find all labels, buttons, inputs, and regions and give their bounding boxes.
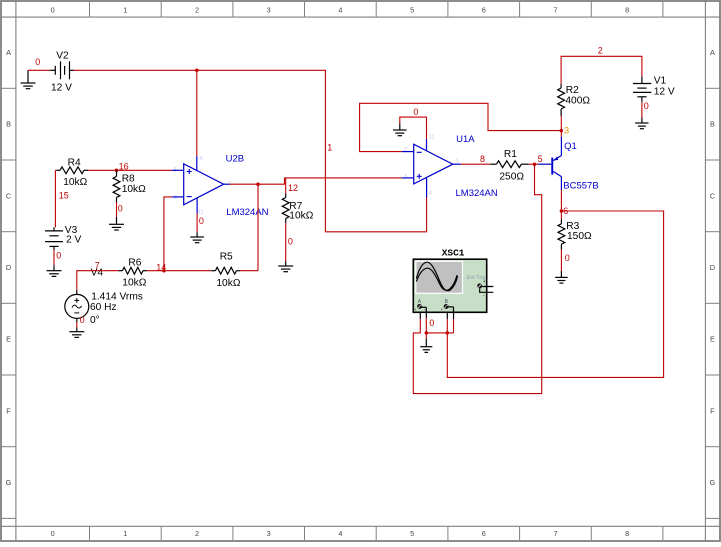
wire net 5: R1 to Q1 base <box>529 163 539 165</box>
svg-text:R5: R5 <box>220 252 233 263</box>
svg-text:R2: R2 <box>566 85 579 96</box>
svg-text:3: 3 <box>564 126 569 137</box>
svg-text:12 V: 12 V <box>654 87 675 98</box>
svg-text:G: G <box>710 478 716 487</box>
svg-text:E: E <box>6 335 11 344</box>
resistor R3 150ohm <box>558 219 592 249</box>
svg-text:F: F <box>710 406 715 415</box>
svg-text:5: 5 <box>410 529 414 538</box>
svg-text:4: 4 <box>429 191 432 197</box>
svg-text:10kΩ: 10kΩ <box>122 278 146 289</box>
wire net 0 below R8 <box>117 202 123 217</box>
resistor R7 10kohm with hang wire <box>282 178 313 223</box>
wire net 8: U1A output to R1 <box>453 163 491 165</box>
junction net 1 on rail <box>195 69 199 73</box>
svg-text:+: + <box>414 308 417 313</box>
svg-text:F: F <box>6 406 11 415</box>
svg-text:7: 7 <box>553 6 557 15</box>
battery V2 12V <box>51 50 74 93</box>
svg-text:B: B <box>6 120 11 129</box>
svg-text:0°: 0° <box>90 315 100 326</box>
svg-text:6: 6 <box>174 195 177 201</box>
svg-text:12 V: 12 V <box>51 83 72 94</box>
svg-text:V1: V1 <box>654 76 667 87</box>
svg-text:D: D <box>710 263 715 272</box>
U1A part label LM324AN <box>456 188 498 199</box>
wire net 14: R6 to R5 and U2B - input <box>147 197 211 271</box>
resistor R4 10kohm <box>55 158 88 188</box>
op-amp U2B <box>174 164 232 205</box>
AC source V4 1.414Vrms 60Hz <box>65 267 143 326</box>
op-amp U2B power pin 4 stub <box>197 156 202 171</box>
wire node 3 (R2 bottom to Q1 emitter) <box>560 116 562 137</box>
resistor R1 250ohm <box>490 149 528 182</box>
svg-text:10kΩ: 10kΩ <box>289 211 313 222</box>
op-amp U1A <box>404 144 459 184</box>
svg-text:16: 16 <box>119 162 129 172</box>
oscilloscope XSC1 <box>413 247 493 313</box>
op-amp U1A power pin 4 stub (bottom) <box>427 177 432 197</box>
ground (R7) <box>278 261 293 271</box>
svg-text:Q1: Q1 <box>564 141 577 152</box>
svg-text:4: 4 <box>199 156 202 162</box>
svg-text:8: 8 <box>480 154 485 164</box>
resistor R5 10kohm <box>211 252 240 290</box>
junction node 3 <box>560 129 564 133</box>
transistor Q1 BC557B <box>538 137 561 190</box>
svg-text:0: 0 <box>51 529 55 538</box>
svg-text:0: 0 <box>199 216 204 226</box>
wire U1A feedback loop: node 3 to U1A inverting input <box>360 103 562 151</box>
svg-text:A: A <box>710 48 715 57</box>
svg-text:0: 0 <box>80 315 85 325</box>
svg-text:LM324AN: LM324AN <box>226 207 268 218</box>
svg-text:11: 11 <box>429 135 435 141</box>
svg-text:14: 14 <box>156 263 166 273</box>
svg-text:G: G <box>6 478 12 487</box>
wire net 1: 12V rail from V2 right, down and to U1A pin4 <box>74 70 427 232</box>
resistor R6 10kohm <box>118 257 147 288</box>
net 1 label <box>327 142 332 152</box>
svg-text:R1: R1 <box>504 149 517 160</box>
ground (V1) <box>635 118 648 129</box>
svg-text:0: 0 <box>565 253 570 263</box>
svg-text:10kΩ: 10kΩ <box>216 278 240 289</box>
wire net 16: R4 to U2B + input <box>88 169 184 171</box>
svg-text:B: B <box>710 120 715 129</box>
svg-text:0: 0 <box>51 6 55 15</box>
wire net 5 to scope input A <box>413 164 541 393</box>
svg-text:3: 3 <box>267 6 271 15</box>
svg-text:2: 2 <box>195 529 199 538</box>
net 0 label (scope ground) <box>429 318 434 328</box>
svg-text:1: 1 <box>123 6 127 15</box>
resistor R8 10kohm <box>113 170 146 202</box>
junction net 14 <box>162 269 166 273</box>
net 2 label <box>598 46 603 56</box>
wire scope B- to ground net <box>426 307 453 333</box>
ground (U1A supply, net 0) with wire <box>393 117 427 139</box>
svg-text:400Ω: 400Ω <box>565 96 590 107</box>
U1A inverting input stub (pin 2) <box>402 147 414 153</box>
junction net 6 at B+ <box>446 331 450 335</box>
svg-text:4: 4 <box>338 6 342 15</box>
svg-text:5: 5 <box>410 6 414 15</box>
svg-text:2 V: 2 V <box>66 235 81 246</box>
svg-text:0: 0 <box>35 57 40 67</box>
svg-text:250Ω: 250Ω <box>499 171 524 182</box>
svg-text:E: E <box>710 335 715 344</box>
svg-text:1.414 Vrms: 1.414 Vrms <box>91 291 143 302</box>
svg-text:0: 0 <box>429 318 434 328</box>
wire net 0 to V2 <box>28 69 51 71</box>
ground (scope A-, net 0) with wire <box>420 307 433 352</box>
svg-text:R4: R4 <box>68 158 81 169</box>
ground (V2 negative, net 0) <box>21 70 36 88</box>
svg-text:+: + <box>441 308 444 313</box>
wire net 12: R5 right up-corner <box>240 270 258 272</box>
svg-text:3: 3 <box>267 529 271 538</box>
battery V1 12V <box>633 76 675 102</box>
svg-text:2: 2 <box>404 147 407 153</box>
battery V3 2V <box>45 225 81 250</box>
U2B reference label <box>226 153 244 164</box>
svg-text:BC557B: BC557B <box>563 181 598 192</box>
junction net 16 (R8 tap) <box>115 169 119 173</box>
svg-text:150Ω: 150Ω <box>567 231 592 242</box>
svg-text:10kΩ: 10kΩ <box>63 177 87 188</box>
net 15 label <box>59 191 69 201</box>
junction net 5 <box>533 162 537 166</box>
svg-text:4: 4 <box>338 529 342 538</box>
svg-text:LM324AN: LM324AN <box>456 188 498 199</box>
wire net 12: U2B output jog to U1A + input <box>224 178 414 184</box>
ground (R3) <box>555 271 568 283</box>
op-amp U1A pin 11 stub (top) <box>427 135 435 151</box>
svg-text:U1A: U1A <box>456 134 475 145</box>
svg-text:2: 2 <box>598 46 603 56</box>
wire net 0 below R3 <box>561 250 569 271</box>
ground (V3) <box>47 265 62 276</box>
wire net 0 below V4 <box>77 315 85 328</box>
resistor R2 400ohm <box>558 84 591 116</box>
net 16 label <box>119 162 129 172</box>
wire net 0 below V1 <box>642 101 649 118</box>
net 8 label <box>480 154 485 164</box>
wire net 0 below V3 <box>54 250 61 265</box>
net 0 label (R7 ground) <box>288 236 293 246</box>
svg-text:C: C <box>710 191 715 200</box>
svg-text:8: 8 <box>625 529 629 538</box>
wire net 1 branch to U2B power pin 4 <box>196 70 198 156</box>
net 7 label <box>95 261 100 271</box>
svg-text:0: 0 <box>413 107 418 117</box>
net 0 label (V2 ground) <box>35 57 40 67</box>
Q1 reference label <box>564 141 577 152</box>
svg-text:U2B: U2B <box>226 153 244 164</box>
net 0 label (U1A supply ground) <box>413 107 418 117</box>
svg-text:0: 0 <box>288 236 293 246</box>
svg-text:7: 7 <box>553 529 557 538</box>
svg-text:6: 6 <box>482 529 486 538</box>
wire net 7: V4 up to R6 <box>77 271 119 290</box>
svg-text:6: 6 <box>482 6 486 15</box>
U1A reference label <box>456 134 475 145</box>
svg-text:0: 0 <box>118 204 123 214</box>
U2B power pin 11 stub and ground <box>190 198 204 243</box>
svg-text:XSC1: XSC1 <box>442 247 465 258</box>
ground (V4) <box>69 328 84 338</box>
svg-text:11: 11 <box>198 209 204 215</box>
wire net 2: V1 to R2 top <box>561 56 642 84</box>
svg-text:15: 15 <box>59 191 69 201</box>
wire net 12 down to R5 right <box>257 184 259 270</box>
svg-text:7: 7 <box>95 261 100 271</box>
junction node 6 <box>560 209 564 213</box>
svg-text:1: 1 <box>123 529 127 538</box>
wire net 0 below R7 <box>285 223 287 261</box>
net 3 label <box>564 126 569 137</box>
svg-text:8: 8 <box>625 6 629 15</box>
Q1 part label BC557B <box>563 181 598 192</box>
svg-text:1: 1 <box>327 142 332 152</box>
net 14 label <box>156 263 166 273</box>
svg-text:60 Hz: 60 Hz <box>90 302 117 313</box>
net 5 label <box>538 154 543 164</box>
svg-text:R8: R8 <box>122 173 135 184</box>
svg-text:A: A <box>6 48 11 57</box>
net 6 label <box>563 206 568 216</box>
junction net 0 at A- <box>425 331 429 335</box>
svg-text:C: C <box>6 191 11 200</box>
svg-text:5: 5 <box>538 154 543 164</box>
ground (R8) <box>109 217 124 230</box>
svg-text:1: 1 <box>456 158 459 164</box>
svg-text:12: 12 <box>288 183 298 193</box>
svg-text:D: D <box>6 263 11 272</box>
svg-text:V2: V2 <box>56 50 69 61</box>
svg-text:+: + <box>483 279 486 285</box>
wire node 6: Q1 collector to R3 and scope input B loop <box>447 190 663 377</box>
svg-text:6: 6 <box>563 206 568 216</box>
svg-text:0: 0 <box>644 101 649 111</box>
svg-text:0: 0 <box>56 250 61 260</box>
wire net 15: R4 left down to V3 <box>54 170 56 227</box>
net 12 label <box>288 183 298 193</box>
svg-text:3: 3 <box>404 174 407 180</box>
svg-text:10kΩ: 10kΩ <box>122 184 146 195</box>
junction net 12 (to R5) <box>256 182 260 186</box>
U2B part label LM324AN <box>226 207 268 218</box>
svg-text:2: 2 <box>195 6 199 15</box>
svg-text:R6: R6 <box>128 257 141 268</box>
